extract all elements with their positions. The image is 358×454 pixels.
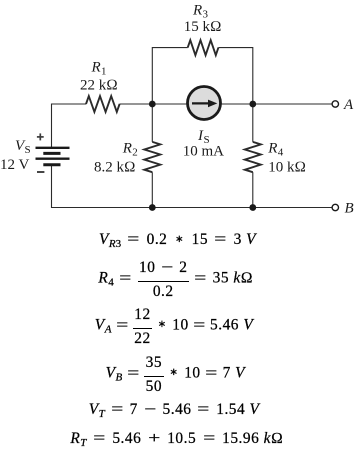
svg-text:22 kΩ: 22 kΩ	[80, 77, 118, 93]
wire R3 loop right vertical	[218, 48, 252, 104]
equation VR3	[0, 231, 357, 250]
current source IS	[188, 87, 221, 120]
equation R4	[0, 259, 355, 299]
svg-text:A: A	[343, 97, 354, 113]
terminal B	[332, 204, 338, 210]
svg-text:1: 1	[101, 66, 107, 78]
equation VT	[0, 401, 353, 420]
equation RT	[0, 430, 356, 449]
wire R4 branch bottom	[252, 172, 254, 207]
wire R2 branch bottom	[151, 172, 153, 207]
wire mid rail to terminal A	[120, 103, 333, 105]
wire R2 branch top	[151, 104, 153, 142]
svg-text:4: 4	[278, 147, 284, 159]
wire R4 branch top	[252, 104, 254, 142]
svg-text:10 mA: 10 mA	[183, 144, 224, 160]
circuit schematic	[0, 0, 358, 230]
junction node top-right	[249, 101, 256, 108]
junction node top-left	[149, 101, 156, 108]
resistor R2	[144, 142, 160, 172]
svg-text:8.2 kΩ: 8.2 kΩ	[94, 160, 136, 176]
svg-text:10 kΩ: 10 kΩ	[268, 160, 306, 176]
battery plus sign	[37, 133, 44, 140]
svg-text:R: R	[122, 141, 132, 157]
resistor R1	[86, 96, 120, 112]
junction node bottom-right	[249, 204, 256, 211]
junction node bottom-left	[149, 204, 156, 211]
battery VS plates	[36, 148, 70, 165]
battery minus sign	[37, 171, 44, 173]
svg-text:R: R	[192, 2, 202, 18]
wire top rail left (battery to R1)	[52, 104, 87, 148]
resistor R3	[188, 40, 219, 55]
svg-text:S: S	[25, 144, 31, 156]
wire R3 loop left vertical	[152, 48, 187, 104]
resistor R4	[245, 142, 261, 172]
svg-text:R: R	[267, 141, 277, 157]
svg-text:2: 2	[132, 147, 138, 159]
terminal A	[332, 101, 338, 107]
svg-text:12 V: 12 V	[0, 157, 29, 173]
svg-text:15 kΩ: 15 kΩ	[184, 19, 222, 35]
svg-text:R: R	[91, 60, 101, 76]
svg-text:B: B	[345, 201, 354, 217]
wire bottom rail	[52, 165, 333, 208]
equation VB	[0, 354, 354, 394]
equation VA	[0, 306, 353, 346]
